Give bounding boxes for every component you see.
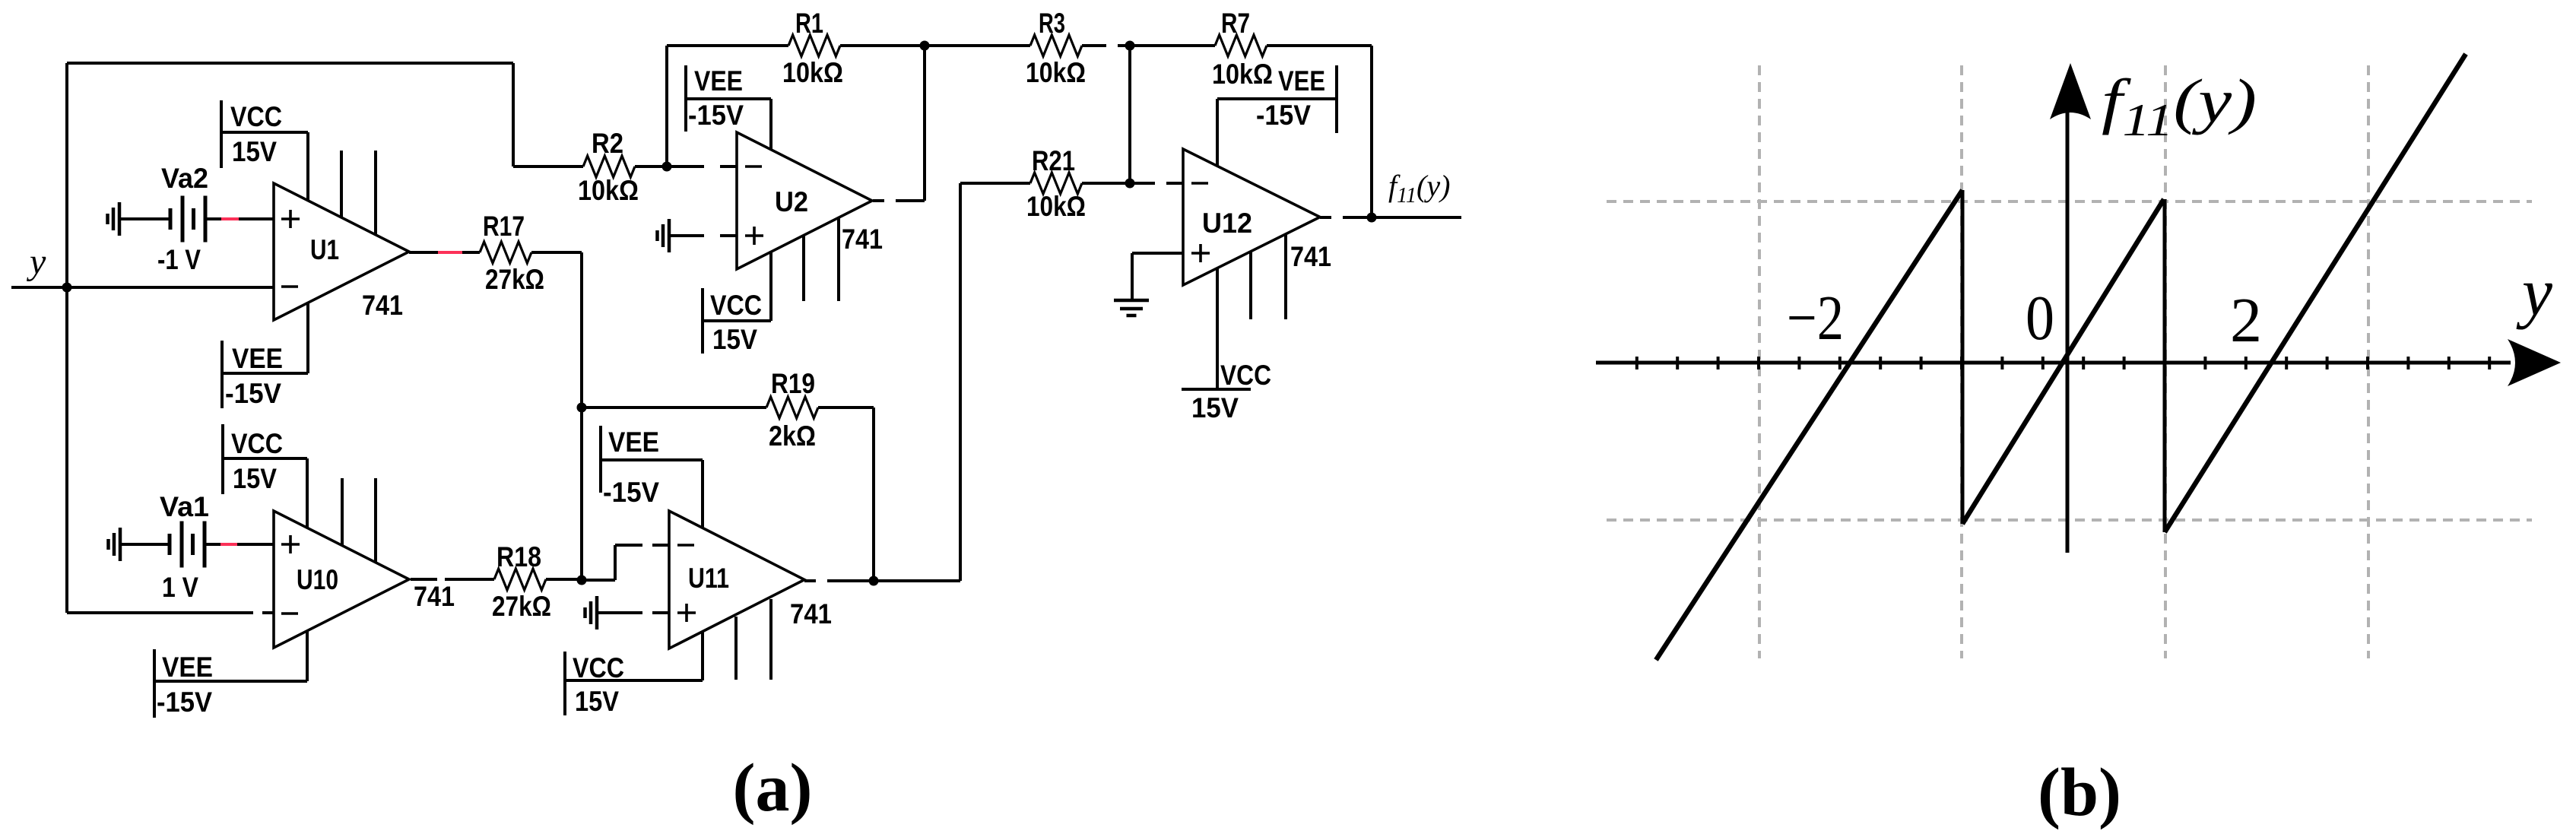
svg-text:Va2: Va2 xyxy=(161,163,208,194)
sawtooth curve drop 2 xyxy=(2163,199,2167,532)
power VEE bracket U1 xyxy=(220,341,224,408)
wire: R17 right lead xyxy=(531,251,582,254)
wire: R7 right lead xyxy=(1267,44,1372,47)
U11 offset pins xyxy=(734,617,738,680)
svg-text:R1: R1 xyxy=(795,8,823,39)
svg-text:−2: −2 xyxy=(1787,283,1844,354)
U11 VEE pin xyxy=(701,460,704,528)
svg-text:10kΩ: 10kΩ xyxy=(578,175,639,206)
svg-text:VCC: VCC xyxy=(710,290,762,321)
svg-text:U11: U11 xyxy=(688,563,729,594)
resistor R18 xyxy=(494,569,546,590)
sawtooth curve segment 1 xyxy=(1656,190,1962,660)
svg-text:U2: U2 xyxy=(775,186,808,217)
wire: U12 + input to ground xyxy=(1132,252,1183,255)
svg-text:15V: 15V xyxy=(1191,392,1239,423)
wire: ground to Va2 xyxy=(119,217,170,220)
wire: R7 feedback vertical to U12 output xyxy=(1370,46,1373,217)
wire: U11 output xyxy=(804,579,816,582)
svg-text:27kΩ: 27kΩ xyxy=(485,264,544,295)
wire: U2 output vertical up xyxy=(923,46,926,201)
wire: Va2 to U1 + input (pink highlighted) xyxy=(205,217,221,220)
op-amp U1 xyxy=(274,183,409,320)
U1 VCC pin xyxy=(306,132,309,201)
svg-text:R19: R19 xyxy=(771,368,815,399)
wire: input y horizontal to U1 inverting input xyxy=(11,286,274,289)
wire: ground to U2 + input xyxy=(669,234,704,237)
U10 offset pins xyxy=(341,478,344,545)
x axis xyxy=(1596,361,2511,365)
svg-text:y: y xyxy=(26,242,46,282)
resistor R17 xyxy=(480,242,531,263)
node A: input junction dot xyxy=(62,283,72,293)
wire: vertical down to R2 row xyxy=(512,63,515,166)
battery Va1 xyxy=(168,534,172,555)
wire: R2 left lead xyxy=(513,165,583,168)
wire: jog to U11 inverting input xyxy=(582,579,615,582)
node: R2/R1 junction xyxy=(662,162,672,172)
battery Va2 xyxy=(169,208,173,230)
svg-text:R17: R17 xyxy=(483,211,525,242)
U2 VCC pin xyxy=(769,251,772,321)
svg-text:10kΩ: 10kΩ xyxy=(782,57,843,88)
wire: R2 right lead to U2 inverting input xyxy=(635,165,704,168)
graph grid dashed vertical x=2580 xyxy=(1960,65,1963,658)
U2 VEE pin xyxy=(769,99,772,150)
wire: R21 left lead from U11 output net xyxy=(960,182,1030,185)
svg-text:1 V: 1 V xyxy=(162,572,198,603)
resistor R3 xyxy=(1030,35,1082,56)
svg-text:VEE: VEE xyxy=(232,343,283,374)
node: R1/R3/U2-output junction xyxy=(920,41,930,51)
power VEE bracket U2 xyxy=(684,65,687,132)
ground at Va2 xyxy=(118,202,122,236)
resistor R19 xyxy=(766,397,818,418)
sawtooth curve drop 1 xyxy=(1961,190,1965,524)
svg-text:VEE: VEE xyxy=(162,652,213,683)
svg-text:-15V: -15V xyxy=(688,100,744,131)
wire: U12 output xyxy=(1320,216,1331,219)
svg-text:15V: 15V xyxy=(232,136,277,167)
op-amp U2 xyxy=(737,132,872,269)
svg-text:-15V: -15V xyxy=(225,378,281,409)
wire: vertical from R21 row down to U11 output xyxy=(959,183,962,581)
svg-text:15V: 15V xyxy=(575,686,619,717)
svg-text:741: 741 xyxy=(790,598,832,629)
ground at Va1 xyxy=(119,528,122,561)
wire: R3 right lead xyxy=(1082,44,1106,47)
node: U12 output/R7 junction xyxy=(1367,213,1377,223)
resistor R1 xyxy=(788,35,840,56)
wire: R19 right lead xyxy=(818,406,874,409)
U1 offset pins xyxy=(340,151,343,218)
U12 VEE pin xyxy=(1216,99,1219,166)
wire: R18 right lead xyxy=(546,578,582,581)
svg-text:741: 741 xyxy=(362,290,403,321)
op-amp U12 xyxy=(1183,149,1320,285)
svg-text:(b): (b) xyxy=(2038,755,2121,830)
svg-text:VCC: VCC xyxy=(230,101,282,132)
U2 offset pins xyxy=(802,235,805,301)
wire: ground to Va1 xyxy=(120,543,170,546)
svg-text:VCC: VCC xyxy=(573,652,624,683)
U10 VEE pin xyxy=(306,631,309,681)
U12 VCC pin xyxy=(1216,268,1219,389)
svg-text:(a): (a) xyxy=(733,750,813,826)
wire: R1 to R3 segment xyxy=(840,44,1030,47)
svg-text:R3: R3 xyxy=(1039,8,1065,39)
svg-text:Va1: Va1 xyxy=(160,491,209,522)
op-amp U11 xyxy=(669,511,804,648)
U12 offset pins xyxy=(1249,251,1252,319)
svg-text:741: 741 xyxy=(1290,241,1331,272)
power VCC bracket U12 xyxy=(1182,388,1251,391)
svg-text:-15V: -15V xyxy=(1256,100,1311,131)
x axis arrowhead xyxy=(2508,339,2561,386)
power VEE bracket U10 xyxy=(153,649,156,718)
sawtooth curve segment 2 xyxy=(1962,199,2164,524)
svg-text:0: 0 xyxy=(2026,283,2054,354)
svg-text:10kΩ: 10kΩ xyxy=(1026,191,1086,222)
svg-text:U12: U12 xyxy=(1202,208,1252,239)
wire: R19 left lead xyxy=(582,406,766,409)
svg-text:R7: R7 xyxy=(1221,8,1250,39)
node: R19/U11 output junction xyxy=(869,576,879,586)
node: R17/R18 junction xyxy=(577,576,587,585)
node: R19 tap junction xyxy=(577,403,587,413)
wire: R17 vertical down xyxy=(580,252,583,580)
ground at U12 + input xyxy=(1114,299,1149,303)
graph grid dashed horizontal y=684 xyxy=(1607,518,2532,522)
resistor R2 xyxy=(583,156,635,177)
wire: U2 output xyxy=(873,199,884,202)
svg-text:2: 2 xyxy=(2230,285,2262,356)
sawtooth curve segment 3 xyxy=(2165,54,2466,532)
x axis tick marks xyxy=(1635,357,1639,369)
svg-text:VEE: VEE xyxy=(694,65,743,97)
svg-text:y: y xyxy=(2516,255,2552,330)
U1 VEE pin xyxy=(306,303,309,373)
wire: top rail left segment xyxy=(667,44,788,47)
node: R3/R7 junction xyxy=(1125,41,1135,51)
svg-text:741: 741 xyxy=(842,224,883,255)
wire: R19 vertical to U11 output xyxy=(872,407,875,581)
power VEE bracket U11 xyxy=(599,426,602,493)
svg-text:R18: R18 xyxy=(496,541,541,572)
svg-text:VEE: VEE xyxy=(608,427,659,458)
wire: R7 left lead xyxy=(1130,44,1215,47)
U10 VCC pin xyxy=(306,458,309,528)
wire: U10 inverting input from left bus xyxy=(67,611,253,614)
svg-text:27kΩ: 27kΩ xyxy=(492,591,551,622)
graph grid dashed vertical x=2314 xyxy=(1758,65,1761,658)
wire: left vertical bus x=88 xyxy=(65,63,68,613)
svg-text:2kΩ: 2kΩ xyxy=(769,420,816,452)
wire: Va1 to U10 + input (pink highlighted) xyxy=(205,543,220,546)
y axis xyxy=(2066,113,2070,553)
wire: U10 output xyxy=(411,578,437,581)
svg-text:R21: R21 xyxy=(1032,145,1075,176)
svg-text:U10: U10 xyxy=(297,564,338,595)
svg-text:15V: 15V xyxy=(233,463,277,494)
svg-text:VEE: VEE xyxy=(1278,65,1325,97)
power VCC bracket U1 xyxy=(220,100,223,168)
svg-text:10kΩ: 10kΩ xyxy=(1212,59,1273,90)
wire: R1 feedback vertical xyxy=(665,46,668,166)
svg-text:-1 V: -1 V xyxy=(157,244,201,275)
svg-text:741: 741 xyxy=(414,581,455,612)
wire: R21 right lead xyxy=(1082,182,1155,185)
y axis arrowhead xyxy=(2050,63,2091,119)
ground at U2 + input xyxy=(668,219,671,252)
power VCC bracket U11 xyxy=(563,652,566,715)
wire: top-left horizontal y=83 xyxy=(67,62,513,65)
graph grid dashed vertical x=3115 xyxy=(2367,65,2370,658)
resistor R7 xyxy=(1215,35,1267,56)
svg-text:U1: U1 xyxy=(310,234,339,265)
graph grid dashed horizontal y=265 xyxy=(1607,200,2532,203)
op-amp U10 xyxy=(274,511,409,648)
node: R3/R7/R21 vertical junction xyxy=(1128,46,1131,183)
svg-text:10kΩ: 10kΩ xyxy=(1026,57,1086,88)
graph grid dashed vertical x=2848 xyxy=(2164,65,2167,658)
wire: ground to U11 + input xyxy=(597,611,642,614)
ground at U11 + input xyxy=(595,596,599,629)
power VEE bracket U12 xyxy=(1335,65,1338,133)
wire: U1 output (pink highlighted) xyxy=(409,251,438,254)
svg-text:R2: R2 xyxy=(592,128,623,159)
svg-text:-15V: -15V xyxy=(603,477,659,508)
svg-text:VCC: VCC xyxy=(231,428,283,459)
resistor R21 xyxy=(1030,173,1082,194)
U11 VCC pin xyxy=(701,632,704,680)
power VCC bracket U10 xyxy=(221,424,224,494)
svg-text:15V: 15V xyxy=(712,324,757,355)
power VCC bracket U2 xyxy=(701,288,704,354)
svg-text:VCC: VCC xyxy=(1220,360,1271,391)
svg-text:-15V: -15V xyxy=(157,687,212,718)
